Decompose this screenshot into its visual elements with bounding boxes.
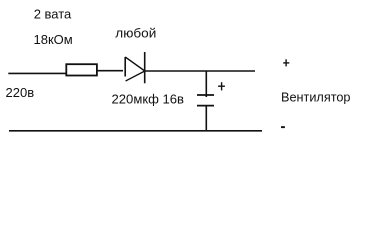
wire: capacitor top lead	[205, 71, 207, 97]
svg-text:2 вата: 2 вата	[34, 6, 72, 21]
resistor R 18kOm body	[66, 64, 97, 75]
svg-text:18кОм: 18кОм	[34, 32, 73, 47]
diode VD1 cathode bar	[144, 52, 146, 83]
wire: bottom return rail	[9, 130, 262, 132]
svg-text:220мкф 16в: 220мкф 16в	[112, 91, 185, 106]
capacitor C1 top plate	[197, 94, 214, 96]
diode VD1 triangle top edge	[125, 57, 145, 71]
label: capacitor plus polarity mark	[218, 82, 225, 90]
svg-text:любой: любой	[115, 26, 156, 41]
wire: diode to positive node	[146, 70, 256, 72]
diode VD1 triangle bottom edge	[126, 71, 145, 81]
wire: capacitor bottom lead	[205, 106, 207, 131]
wire: AC input top-left segment	[8, 72, 66, 74]
diode VD1 anode bar	[124, 57, 126, 77]
label: output minus terminal	[281, 126, 285, 128]
label: output plus terminal	[283, 59, 289, 66]
svg-text:220в: 220в	[6, 85, 35, 100]
svg-text:Вентилятор: Вентилятор	[281, 89, 351, 104]
wire: resistor to diode	[97, 70, 123, 72]
capacitor C1 bottom plate	[197, 105, 214, 107]
